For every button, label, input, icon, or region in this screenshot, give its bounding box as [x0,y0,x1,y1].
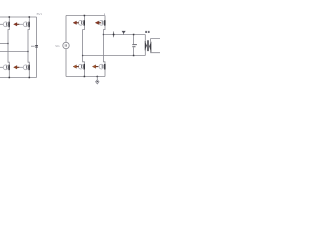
wire: right bridge leg D (Q6-Q8) [103,26,105,64]
wire: Q8 source stub [104,69,106,76]
junction: Q4 source on bottom rail [29,77,31,79]
wire: right bridge left bus lower [65,49,67,77]
mosfet Q2 (left bridge top-right) [23,22,30,28]
mosfet Q4 (left bridge bottom-right) [23,65,30,71]
junction: C2 top [133,34,135,36]
current probe tick [113,32,115,38]
gate arrow Q6 [95,21,101,25]
junction: Q5 drain on top rail [84,15,86,17]
wire: Q4 source stub [28,70,30,77]
wire: left bridge top DC rail [0,16,37,18]
ground node (right bridge midpoint) [96,76,99,84]
label TX1 ratio [145,31,149,33]
svg-text:Vin: Vin [55,44,60,48]
wire: Q1 drain stub [8,17,10,22]
transformer TX1 [145,35,160,56]
mosfet Q7 (right bridge bottom-left) [78,64,85,70]
junction: phase A tap [7,43,8,44]
wire: right bridge left bus upper [65,16,67,43]
wire: left bridge leg A (Q1-Q3) [8,27,9,65]
mosfet Q3 (left bridge bottom-left) [0,65,10,71]
wire: Q5 drain stub [83,16,85,21]
wire: phase D output to transformer top [103,34,145,36]
wire: left bridge phase A tap to left edge [0,43,8,45]
voltage source V1 [63,42,69,48]
probe flag [122,31,126,35]
mosfet Q8 (right bridge bottom-right) [99,64,106,70]
wire: phase C output to transformer bottom [83,55,146,57]
junction: Q3 source on bottom rail [9,77,11,79]
wire: Q6 drain stub [104,16,106,21]
gate arrow Q2 [14,22,24,26]
mosfet Q6 (right bridge top-right) [99,20,106,26]
junction: C2 bottom [133,55,135,57]
gate arrow Q8 [92,65,99,69]
wire: left bridge leg B (Q2-Q4) [28,27,29,65]
gate arrow Q4 [14,65,24,69]
gate arrow Q5 [73,21,79,25]
junction: phase B tap [27,51,28,52]
junction: Q7 source on bottom rail [84,76,86,78]
wire: left bridge bottom DC rail [0,77,37,79]
tick above rail corner [103,13,106,15]
mosfet Q5 (right bridge top-left) [78,20,85,26]
wire: left bridge right DC bus [36,17,38,78]
svg-text:BV1: BV1 [37,12,43,16]
wire: Q3 source stub [8,70,10,77]
wire: right bridge leg C (Q5-Q7) [83,26,85,64]
capacitor C2 (output) [132,35,137,56]
wire: Q2 drain stub [28,17,30,22]
junction: phase D tap [103,34,104,35]
junction: phase C tap [82,55,83,56]
wire: right bridge bottom DC rail [66,76,105,78]
junction: Q2 drain on top rail [29,16,31,18]
junction: Q1 drain on top rail [9,16,11,18]
wire: left bridge phase B tap to left edge [0,51,28,53]
mosfet Q1 (left bridge top-left) [0,22,10,28]
gate arrow Q7 [73,65,79,69]
wire: right bridge top DC rail [66,15,105,17]
capacitor C1 (left DC bus) [31,45,38,48]
wire: Q7 source stub [83,69,85,76]
